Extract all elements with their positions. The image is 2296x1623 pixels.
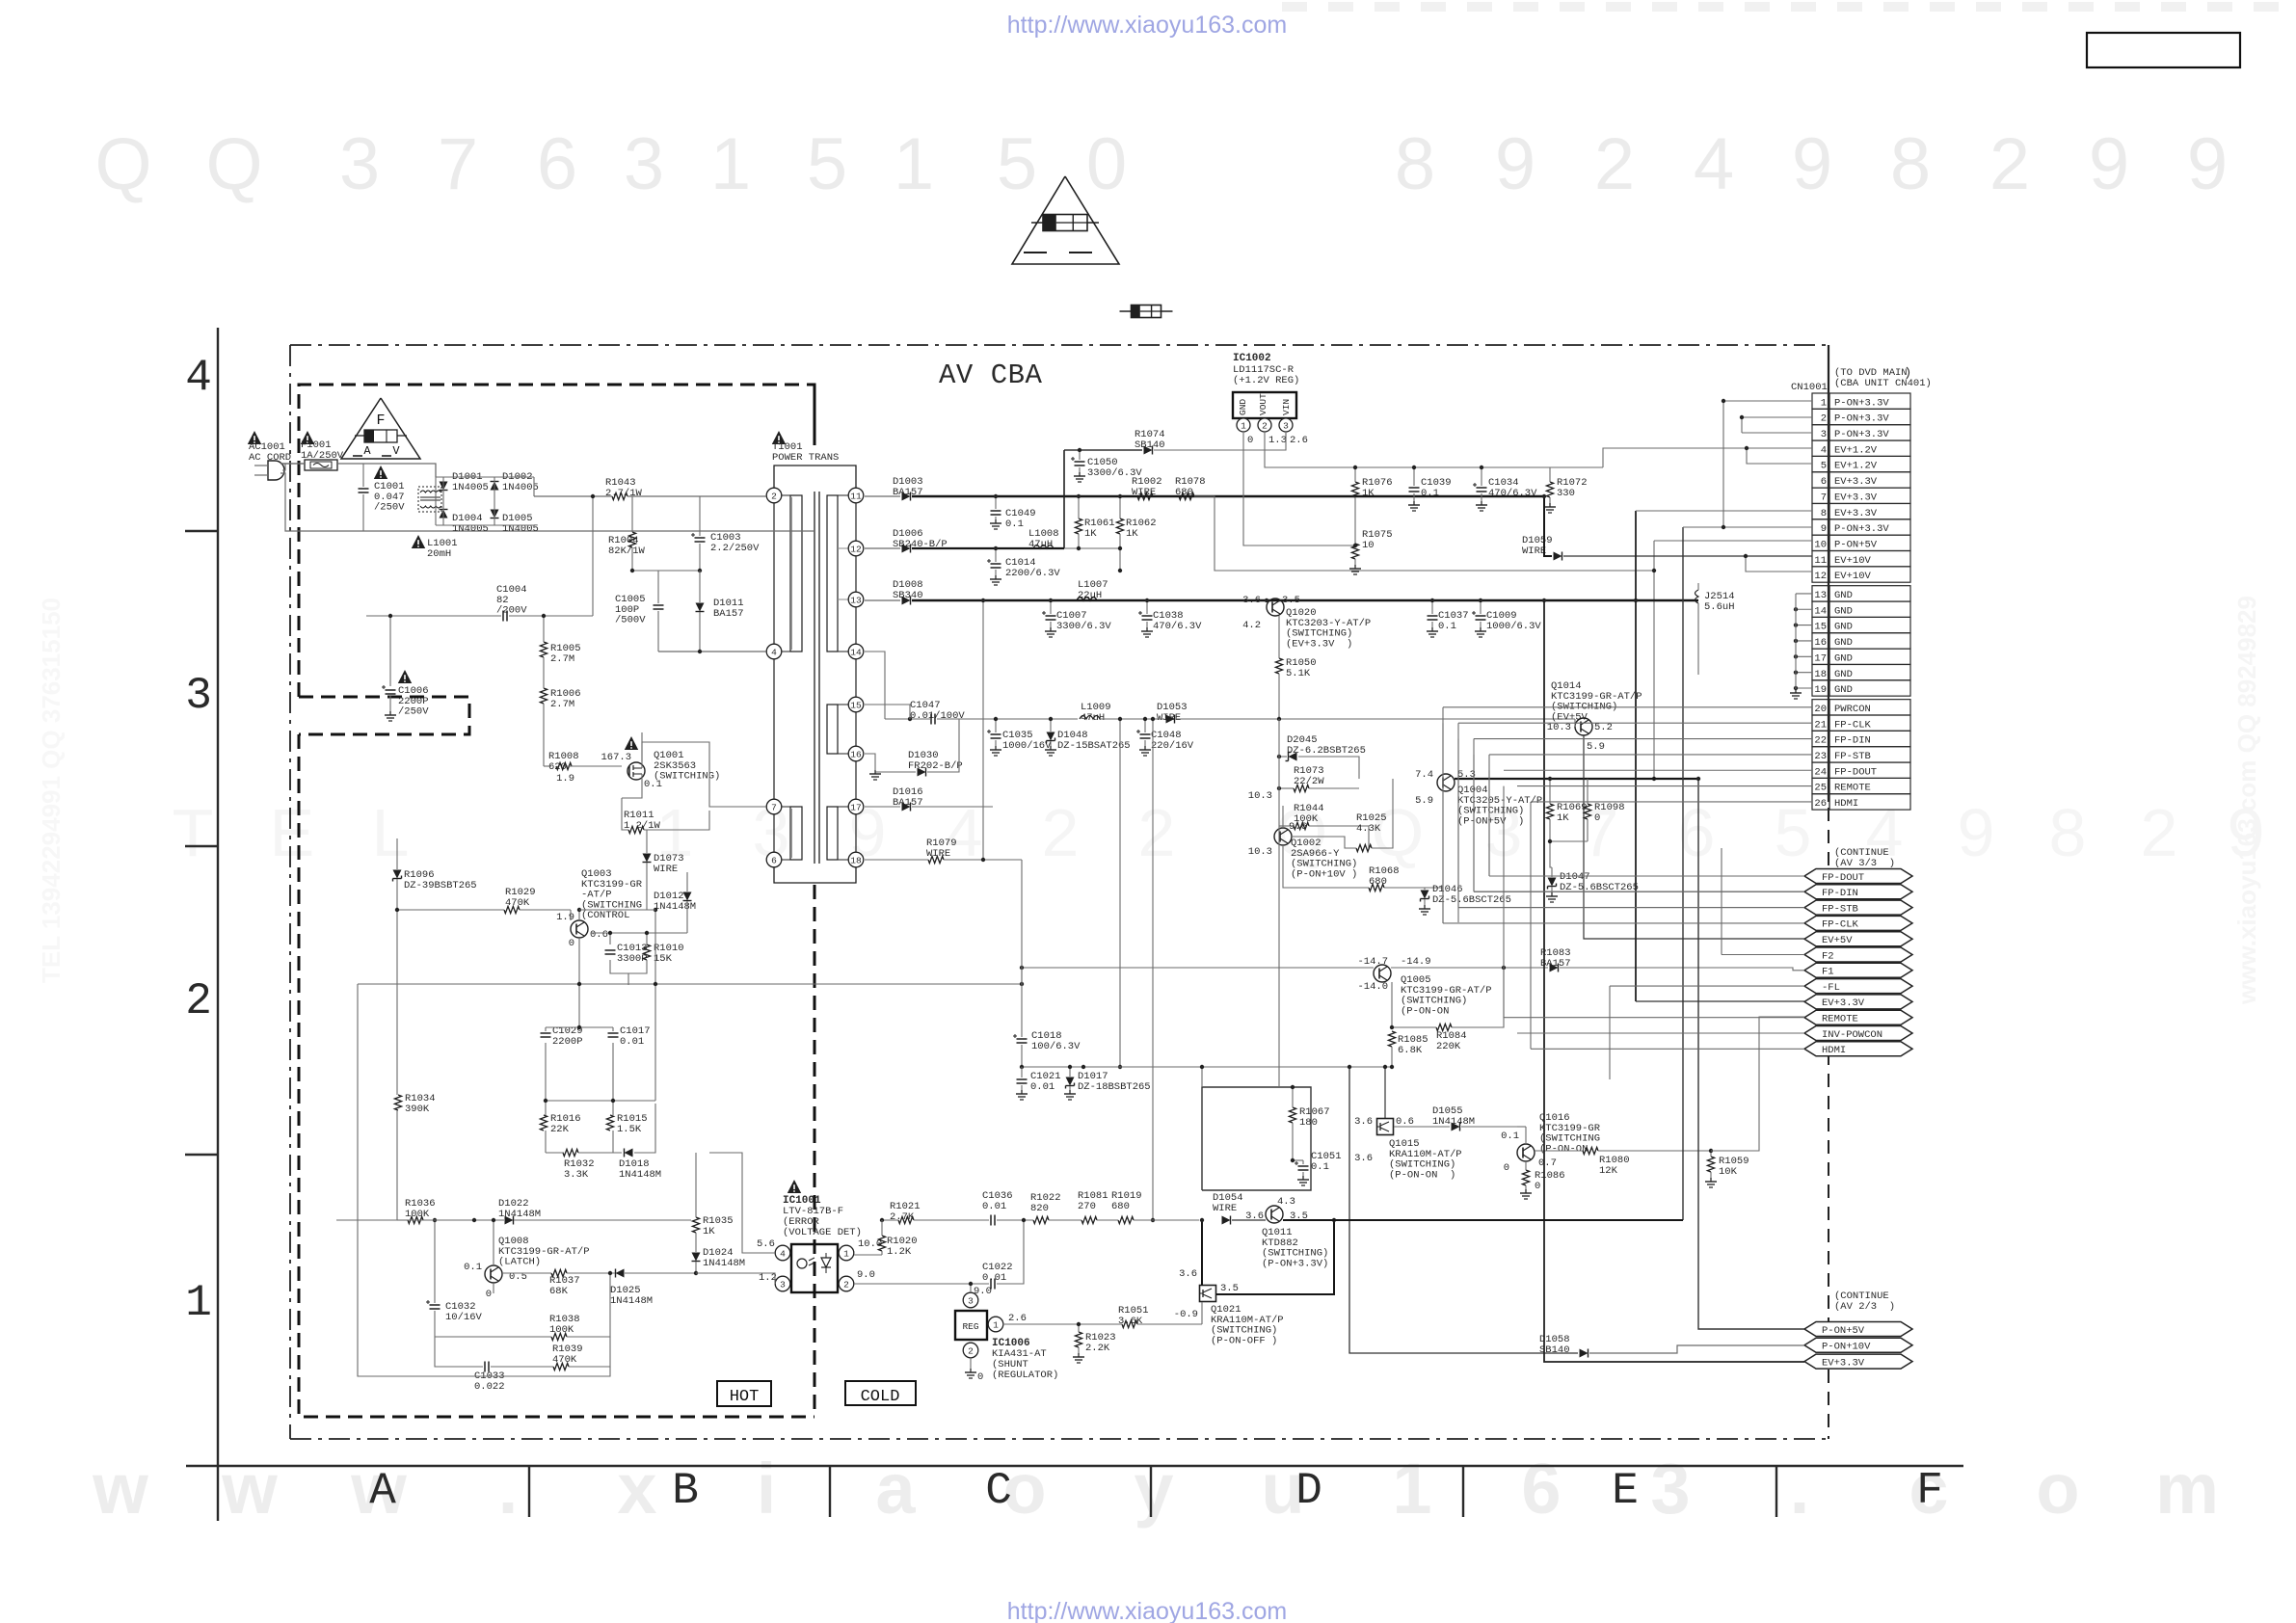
svg-text:0.1: 0.1 [644, 779, 662, 790]
EV+3.3V vertical bus x1697 [1635, 511, 1637, 1001]
svg-text:9: 9 [1495, 123, 1535, 205]
pwrcon wire down [1442, 707, 1444, 1287]
wire pin15 tap [865, 705, 910, 719]
base drive loop rectangle [1202, 1087, 1311, 1190]
svg-text:www.xiaoyu163.com QQ 89249829: www.xiaoyu163.com QQ 89249829 [2232, 596, 2261, 1005]
IC1006 pin 1 [988, 1317, 1003, 1332]
svg-text:7: 7 [438, 123, 478, 205]
EV+3.3V lower drop x1602 [1544, 600, 1804, 1362]
svg-text:.: . [1790, 1449, 1810, 1529]
R1061 resistor [1075, 519, 1081, 534]
svg-text:-0.9: -0.9 [1174, 1309, 1198, 1320]
D1048 zener [1047, 732, 1055, 741]
svg-text:0: 0 [1504, 1162, 1509, 1174]
connector CN1001 pin 22 FP-DIN [1812, 731, 1829, 746]
R1068 resistor [1369, 884, 1384, 891]
R1062 resistor [1116, 519, 1123, 534]
wire conn pins 1-3 and 9 bus [1723, 400, 1812, 402]
svg-text:FP-STB: FP-STB [1834, 751, 1871, 762]
IC1002 pin2 rail [1265, 439, 1362, 467]
small fuse icon [1120, 310, 1173, 312]
fuse F1001 symbol [305, 460, 337, 470]
connector CN1001 pin 19 GND [1812, 680, 1829, 696]
heavy rail Q1011 to bus [1330, 1219, 1683, 1221]
fuse caution triangle top [1012, 176, 1119, 264]
R1080 resistor [1583, 1147, 1598, 1154]
left approach wires lower area [1022, 983, 1392, 985]
transformer pin 6 [766, 852, 782, 867]
C1032 capacitor [430, 1304, 441, 1306]
signal tag FP-DOUT [1804, 869, 1912, 884]
svg-text:9.6: 9.6 [1289, 821, 1307, 833]
L1009 inductor [1080, 716, 1100, 720]
svg-text:9: 9 [1821, 523, 1827, 535]
svg-text:2: 2 [843, 1279, 849, 1290]
transformer pin 15 [848, 697, 864, 712]
C1047 capacitor [930, 714, 932, 725]
svg-text:LD1117SC-R(+1.2V REG): LD1117SC-R(+1.2V REG) [1233, 364, 1299, 386]
svg-text:2: 2 [1989, 123, 2030, 205]
wire d1055 [1394, 1126, 1450, 1128]
R1050 resistor [1275, 658, 1282, 674]
svg-text:6: 6 [771, 855, 777, 865]
svg-text:24: 24 [1814, 766, 1827, 778]
C1001 capacitor [362, 464, 364, 487]
signal tag EV+3.3V lower [1804, 1354, 1912, 1369]
svg-text:P-ON+5V: P-ON+5V [1834, 539, 1878, 550]
main rail EV+10V [865, 495, 900, 497]
svg-text:C10330.022: C10330.022 [474, 1370, 505, 1393]
wire r1038 r1039 c1033 returns [435, 1336, 551, 1338]
D1006 diode [902, 545, 911, 553]
svg-text:VOUT: VOUT [1258, 393, 1268, 415]
pins 11-12 stub bus [1746, 556, 1812, 572]
wire c1004 row [366, 615, 501, 617]
tag wire F2 [1722, 954, 1804, 956]
gnd near pin16 [874, 770, 876, 774]
C1034 capacitor [1481, 467, 1482, 486]
signal tag HDMI [1804, 1042, 1912, 1056]
C1014 capacitor [995, 548, 997, 562]
R1086 resistor [1522, 1170, 1529, 1185]
svg-text:3.5: 3.5 [1220, 1283, 1239, 1294]
svg-text:2.6: 2.6 [1008, 1313, 1027, 1324]
svg-text:EV+10V: EV+10V [1834, 555, 1872, 567]
D1022 diode [505, 1216, 514, 1225]
svg-text:0.1: 0.1 [464, 1262, 482, 1273]
svg-text:2: 2 [1594, 123, 1635, 205]
svg-text:1: 1 [843, 1248, 849, 1259]
svg-text:1: 1 [710, 123, 751, 205]
R1034 resistor [394, 1095, 401, 1110]
Q1021 dtr [1200, 1286, 1216, 1302]
svg-text:22: 22 [1814, 735, 1827, 747]
svg-text:GND: GND [1834, 669, 1853, 680]
connector CN1001 pin 9 P-ON+3.3V [1812, 519, 1829, 535]
connector CN1001 pin 20 PWRCON [1812, 700, 1829, 715]
D1025 diode [616, 1269, 625, 1278]
svg-text:L: L [372, 795, 410, 870]
IC1001 warning [788, 1180, 801, 1193]
svg-text:VIN: VIN [1281, 399, 1292, 415]
HOT area dashed border [299, 385, 814, 697]
Q1001 mosfet [627, 762, 645, 780]
svg-text:GND: GND [1238, 399, 1248, 415]
svg-text:REMOTE: REMOTE [1834, 783, 1871, 794]
bridge diode D1001 [440, 482, 448, 491]
tag wire INV-POWCON [1517, 1032, 1804, 1034]
Q1016 transistor [1517, 1144, 1535, 1161]
svg-text:FP-DOUT: FP-DOUT [1822, 872, 1864, 884]
long mid vertical x1020 (drain rail) [982, 600, 984, 860]
wire d1058 [1349, 1067, 1578, 1353]
svg-text:w: w [221, 1449, 278, 1529]
rail d1006 [865, 547, 900, 549]
value 10.0 near pin1 [854, 1254, 882, 1256]
C1022 capacitor [990, 1279, 992, 1290]
svg-text:EV+10V: EV+10V [1834, 571, 1872, 582]
HOT box [717, 1381, 771, 1406]
svg-text:F1: F1 [1822, 967, 1834, 978]
signal tag F2 [1804, 947, 1912, 962]
R1020 resistor [878, 1236, 885, 1251]
transformer T1001 secondary winding 15-16 [827, 705, 838, 754]
svg-text:D1011BA157: D1011BA157 [713, 598, 744, 620]
svg-text:-FL: -FL [1822, 982, 1840, 994]
R1002 resistor [1137, 492, 1153, 499]
R1067 resistor [1289, 1107, 1295, 1123]
wire d1030 [875, 771, 916, 773]
wire conn gnd bus 13-19 [1796, 593, 1812, 595]
Q1011 transistor [1266, 1206, 1283, 1223]
wire after r1078 down to 592 [1194, 496, 1654, 571]
svg-text:J25145.6uH: J25145.6uH [1704, 591, 1735, 613]
svg-text:17: 17 [850, 802, 861, 812]
svg-text:P-ON+3.3V: P-ON+3.3V [1834, 397, 1889, 409]
AC plug symbol [268, 461, 284, 480]
IC1001 pin 3 [775, 1276, 790, 1291]
svg-text:0.1: 0.1 [1501, 1131, 1519, 1142]
Q1003 transistor [571, 920, 588, 938]
svg-text:0: 0 [1247, 435, 1253, 446]
C1050 capacitor [1079, 450, 1081, 460]
svg-text:4: 4 [1694, 123, 1734, 205]
vertical x1162 between rails [1119, 719, 1121, 1067]
connector CN1001 pin 6 EV+3.3V [1812, 472, 1829, 488]
R1043 resistor [612, 492, 627, 499]
svg-text:REG: REG [962, 1321, 978, 1332]
signal tag EV+3.3V [1804, 995, 1912, 1009]
R1084 resistor [1436, 1024, 1452, 1030]
IC1006 body REG [955, 1311, 987, 1340]
IC1002 pin 1 [1237, 418, 1250, 432]
R1038 resistor [551, 1333, 567, 1340]
wire q1003 collector [578, 910, 580, 920]
wire bridge to pin2 [534, 495, 612, 497]
wire mid join [546, 1100, 655, 1102]
C1006 warning [398, 670, 412, 683]
svg-text:7: 7 [1821, 492, 1827, 503]
D1016 diode [902, 803, 911, 811]
svg-text:HOT: HOT [730, 1388, 760, 1406]
transformer pin 18 [848, 852, 864, 867]
wire r1010 c1013 tops [609, 933, 611, 945]
connector CN1001 pin 11 EV+10V [1812, 551, 1829, 567]
svg-text:3: 3 [339, 123, 380, 205]
svg-text:P-ON+3.3V: P-ON+3.3V [1834, 413, 1889, 425]
svg-text:3.6: 3.6 [1242, 595, 1261, 606]
R1059 resistor [1707, 1157, 1714, 1172]
transformer T1001 secondary winding 11-14 [827, 495, 838, 652]
svg-text:18: 18 [1814, 669, 1827, 680]
tag wire -FL [1610, 985, 1804, 987]
svg-text:POWER TRANS: POWER TRANS [772, 452, 839, 464]
svg-text:1.9: 1.9 [556, 912, 574, 923]
svg-text:5: 5 [1775, 795, 1812, 870]
svg-text:REMOTE: REMOTE [1822, 1014, 1858, 1025]
wire q1016 collector [1525, 1127, 1527, 1144]
Q1002 transistor [1274, 828, 1292, 845]
C1033 capacitor [484, 1362, 486, 1372]
D2045 zener [1289, 753, 1297, 761]
svg-text:C10010.047/250V: C10010.047/250V [374, 481, 405, 514]
wire r1029 [397, 909, 504, 911]
signal tag INV-POWCON [1804, 1026, 1912, 1041]
C1001 warning [374, 466, 387, 479]
D1018 diode [625, 1149, 633, 1157]
svg-text:4.3: 4.3 [1277, 1196, 1295, 1208]
svg-text:7.4: 7.4 [1415, 769, 1433, 781]
wire q1005 emitter [1391, 979, 1393, 1037]
wire d1022 junction [472, 1218, 476, 1222]
svg-text:HDMI: HDMI [1822, 1045, 1846, 1056]
svg-text:0.7: 0.7 [1538, 1157, 1557, 1169]
C1018 capacitor [1017, 1038, 1028, 1040]
svg-text:P-ON+3.3V: P-ON+3.3V [1834, 523, 1889, 535]
main border dash-dot left [289, 345, 291, 1439]
faint top edge marks [1282, 2, 1307, 12]
D1046 zener [1421, 891, 1429, 899]
svg-text:EV+3.3V: EV+3.3V [1834, 476, 1878, 488]
svg-text:8: 8 [2049, 795, 2087, 870]
transformer T1001 warning [772, 431, 786, 444]
IC1006 pin 3 [963, 1292, 978, 1308]
D1012 diode [683, 892, 692, 901]
svg-text:10: 10 [1814, 539, 1827, 550]
rail -14.7 F1 net [1022, 967, 1374, 969]
svg-text:EV+5V: EV+5V [1822, 935, 1853, 946]
connector CN1001 pin 21 FP-CLK [1812, 715, 1829, 731]
transformer pin 16 [848, 746, 864, 761]
svg-text:IC1002: IC1002 [1233, 353, 1271, 364]
svg-text:E: E [1612, 1466, 1639, 1516]
wire q1005 rail down [1391, 1067, 1393, 1137]
node r1004 c1003 [632, 570, 700, 572]
wire ic1002 gnd leg [1243, 433, 1355, 545]
svg-text:8: 8 [1890, 123, 1931, 205]
R1039 resistor [553, 1363, 569, 1370]
long vertical fp wires [1442, 707, 1444, 923]
D1011 diode [696, 603, 705, 612]
svg-text:5: 5 [1821, 461, 1827, 472]
bottom ruler tick [1462, 1466, 1464, 1517]
wire conn pins 20-26 to left [1443, 706, 1812, 708]
svg-text:HDMI: HDMI [1834, 798, 1858, 810]
C1004 capacitor [502, 611, 504, 622]
svg-text:9.0: 9.0 [974, 1286, 992, 1297]
connector CN1001 pin 24 FP-DOUT [1812, 762, 1829, 778]
C1029 capacitor [541, 1032, 551, 1034]
svg-text:.: . [498, 1449, 519, 1529]
wire r1080 right to tags [1711, 1017, 1804, 1151]
wire q1001 to transformer pin7 [642, 742, 766, 807]
L1008 inductor [1033, 545, 1054, 549]
R1019 resistor [1118, 1216, 1134, 1223]
C1039 capacitor [1413, 467, 1415, 486]
D1053 diode [1166, 715, 1175, 724]
L1001 choke symbol [418, 487, 441, 512]
svg-text:GND: GND [1834, 622, 1853, 633]
connector CN1001 pin 8 EV+3.3V [1812, 503, 1829, 519]
Q1015 dtr [1377, 1119, 1394, 1135]
wire d2045 [1279, 756, 1287, 758]
IC1001 led [797, 1259, 807, 1268]
svg-text:FP-CLK: FP-CLK [1822, 919, 1859, 931]
svg-text:FP-DIN: FP-DIN [1834, 735, 1871, 747]
connector CN1001 pin 5 EV+1.2V [1812, 456, 1829, 471]
svg-text:1.3: 1.3 [1268, 435, 1287, 446]
svg-text:1: 1 [894, 123, 934, 205]
svg-text:1.2: 1.2 [759, 1272, 777, 1284]
AC1001 warning [248, 431, 261, 444]
transformer pin 17 [848, 799, 864, 814]
connector CN1001 pin 26 HDMI [1812, 794, 1829, 810]
IC1001 pin4 wire [709, 1153, 775, 1253]
connector CN1001 pin 16 GND [1812, 633, 1829, 649]
D1030 diode [918, 768, 926, 777]
connector CN1001 pin 14 GND [1812, 601, 1829, 617]
R1016 resistor [540, 1115, 547, 1131]
svg-text:x: x [617, 1449, 656, 1529]
C1013 capacitor [605, 949, 616, 951]
svg-text:GND: GND [1834, 684, 1853, 696]
svg-text:-14.9: -14.9 [1401, 956, 1431, 968]
svg-text:20: 20 [1814, 704, 1827, 715]
wire q1014 base [1574, 719, 1576, 727]
svg-text:P-ON+3.3V: P-ON+3.3V [1834, 429, 1889, 440]
transformer T1001 outline [774, 466, 856, 495]
rail y746 [885, 718, 931, 720]
R1023 resistor [1075, 1332, 1081, 1347]
R1029 resistor [504, 906, 520, 913]
D1054 diode [1222, 1216, 1231, 1225]
svg-text:15: 15 [1814, 622, 1827, 633]
connector CN1001 pin 17 GND [1812, 649, 1829, 664]
svg-text:13: 13 [850, 595, 862, 605]
svg-text:T: T [173, 795, 214, 870]
L1001 warning [412, 535, 425, 548]
main border right dashed mid [1828, 808, 1829, 1322]
svg-text:21: 21 [1814, 719, 1827, 731]
svg-text:PWRCON: PWRCON [1834, 704, 1871, 715]
wire r1080 [1535, 1150, 1583, 1152]
C1038 capacitor [1146, 600, 1148, 614]
svg-text:10.3: 10.3 [1248, 790, 1272, 802]
D1008 diode [902, 597, 911, 605]
svg-text:11: 11 [850, 491, 862, 501]
wire left loop down [335, 1153, 337, 1376]
connector CN1001 pin 2 P-ON+3.3V [1812, 409, 1829, 424]
svg-text:R107322/2W: R107322/2W [1294, 765, 1324, 787]
row10 stub [1654, 540, 1812, 542]
L1007 inductor [1077, 598, 1097, 601]
svg-text:25: 25 [1814, 783, 1827, 794]
svg-text:2: 2 [185, 976, 212, 1026]
C1005 capacitor [654, 604, 664, 606]
svg-text:23: 23 [1814, 751, 1827, 762]
top right empty box [2087, 33, 2240, 67]
wire ac top [280, 463, 305, 465]
svg-text:i: i [757, 1449, 777, 1529]
svg-text:9: 9 [2187, 123, 2228, 205]
wire q1001 drain [641, 732, 643, 768]
svg-text:8: 8 [1395, 123, 1435, 205]
IC1001 body [791, 1244, 838, 1292]
signal tag FP-STB [1804, 900, 1912, 915]
R1035 resistor [692, 1217, 699, 1233]
connector CN1001 pin 1 P-ON+3.3V [1812, 393, 1829, 409]
svg-text:FP-CLK: FP-CLK [1834, 719, 1872, 731]
svg-text:6: 6 [1821, 476, 1827, 488]
svg-text:F: F [1916, 1466, 1943, 1516]
svg-text:2: 2 [1262, 420, 1268, 431]
rail y746 right [1100, 718, 1164, 720]
signal tag P-ON+5V lower [1804, 1322, 1912, 1337]
COLD box [845, 1381, 916, 1405]
svg-text:D1016BA157: D1016BA157 [893, 786, 923, 809]
transformer pin 4 [766, 644, 782, 659]
Q1014 transistor [1575, 718, 1592, 735]
svg-text:5.9: 5.9 [1587, 741, 1605, 753]
svg-text:7: 7 [771, 802, 777, 812]
q1008 base vertical x680 [654, 910, 656, 935]
wire pin14 to c1047 [865, 652, 885, 719]
EV+3.3V tag wire upper [1636, 1000, 1804, 1002]
wire pin17 row [865, 806, 872, 808]
svg-text:5.2: 5.2 [1594, 722, 1613, 733]
R1075 resistor [1351, 544, 1358, 559]
R1085 resistor [1388, 1031, 1395, 1047]
R1044 resistor [1294, 822, 1309, 829]
rail y1266 segments [997, 1219, 1033, 1221]
vertical x1196 long [1152, 719, 1154, 1220]
row9 stub [1683, 526, 1812, 528]
P-ON+3.3V vertical bus x1746 [1682, 527, 1684, 1220]
vertical x1327 feed [1278, 719, 1280, 1087]
bottom ruler tick [1775, 1466, 1777, 1517]
rail y1107 [1022, 1066, 1392, 1068]
D1073 diode [643, 854, 652, 863]
vertical p-on5v x1716 [1653, 541, 1655, 779]
svg-text:(CONTINUE(AV 3/3 ): (CONTINUE(AV 3/3 ) [1834, 847, 1895, 869]
svg-text:10.3: 10.3 [1547, 722, 1571, 733]
svg-text:Q: Q [205, 123, 262, 205]
svg-text:15: 15 [850, 700, 862, 710]
R1015 resistor [606, 1115, 613, 1131]
wire q1021 output loop [1216, 1220, 1334, 1294]
wire q1014 emitter to EV+5V tag [1584, 735, 1804, 939]
pins 4-5 stub bus [1747, 448, 1812, 464]
